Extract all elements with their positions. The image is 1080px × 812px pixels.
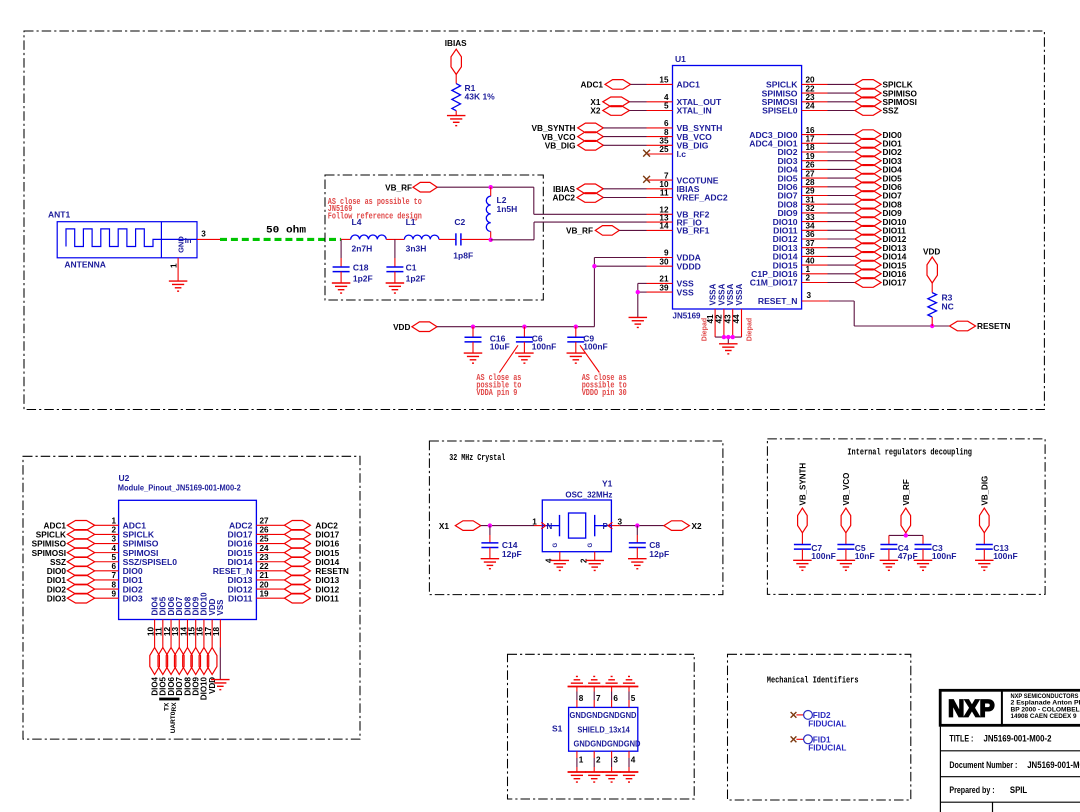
svg-text:18: 18 [212, 626, 221, 636]
inductor L2 1n5H [486, 187, 517, 240]
inductor L1 3n3H [404, 217, 439, 254]
no-connect X at U1 pin 7 VCOTUNE [643, 176, 650, 183]
U1 pin 43 VSSA [723, 283, 735, 337]
title block [940, 689, 1080, 812]
U1 pin 15 ADC1 [647, 76, 701, 90]
svg-text:DIO0: DIO0 [47, 567, 67, 576]
port X1 (crystal) [439, 521, 481, 531]
port SPIMISO (U1) [855, 88, 918, 98]
svg-text:24: 24 [806, 102, 816, 111]
svg-text:VSSA: VSSA [709, 283, 718, 305]
junction at C16 [471, 325, 475, 329]
svg-text:G: G [553, 543, 559, 548]
svg-text:SPISEL0: SPISEL0 [762, 106, 798, 116]
crystal Y1 pin 2 to ground [580, 552, 595, 563]
shield S1 SHIELD_13x14 [552, 707, 641, 751]
U1 pin 21 VSS [647, 275, 694, 289]
U1 pin 4 XTAL_OUT [647, 93, 722, 107]
svg-text:Y1: Y1 [602, 479, 613, 489]
flipped ground at shield pin 7 [585, 676, 604, 686]
U1 pin 10 IBIAS [647, 180, 700, 194]
svg-text:DIO13: DIO13 [883, 244, 907, 253]
port VB_DIG (U1) [545, 141, 647, 151]
UART0 TX RX marker [159, 698, 179, 734]
ground at shield pin 1 [568, 772, 587, 782]
svg-text:9: 9 [664, 249, 669, 258]
resistor R3 NC [928, 283, 954, 326]
svg-text:VDDA pin 9: VDDA pin 9 [476, 388, 517, 398]
port DIO17 (U1) [855, 278, 907, 288]
capacitor C1 1p2F [386, 239, 425, 283]
svg-text:43: 43 [723, 314, 732, 324]
U1 pin 14 VB_RF1 [647, 222, 710, 236]
shield S1 pin 1 (bottom) [577, 751, 584, 772]
wire VDD rail [437, 326, 594, 328]
NXP logo [948, 696, 995, 723]
svg-text:VSS: VSS [216, 599, 225, 616]
svg-text:UART0: UART0 [170, 711, 177, 733]
section frame: shield [508, 654, 695, 799]
junction at C14 [488, 523, 492, 527]
port DIO9 (U2 bottom) [191, 648, 201, 696]
svg-text:DIO3: DIO3 [123, 593, 143, 603]
wire R1 to ground [455, 111, 457, 116]
ground at shield pin 3 [602, 772, 621, 782]
wire C2 to L2 bottom junction [461, 238, 491, 240]
svg-text:VB_DIG: VB_DIG [545, 142, 576, 151]
svg-text:U1: U1 [675, 54, 686, 64]
svg-text:VB_SYNTH: VB_SYNTH [531, 124, 575, 133]
svg-text:6: 6 [664, 119, 669, 128]
port DIO1 (U1) [855, 139, 902, 149]
svg-text:6: 6 [613, 694, 618, 703]
port X1 (U1 XTAL_OUT) [590, 97, 646, 107]
capacitor C6 100nF [515, 327, 556, 363]
svg-text:X2: X2 [590, 107, 601, 116]
svg-text:1: 1 [579, 755, 584, 764]
port IBIAS (top) [445, 39, 467, 74]
U2 pin 6 DIO0 [95, 562, 143, 576]
port DIO13 (U1) [855, 243, 907, 253]
U1 pin 23 SPIMOSI [762, 93, 855, 107]
U1 pin 44 VSSA [732, 283, 744, 337]
svg-text:VSSA: VSSA [735, 283, 744, 305]
crystal Y1 pin 4 to ground [545, 552, 560, 563]
U1 pin 6 VB_SYNTH [647, 119, 723, 133]
svg-text:ANT1: ANT1 [48, 210, 70, 220]
svg-text:31: 31 [806, 195, 816, 204]
svg-text:RESET_N: RESET_N [758, 296, 798, 306]
svg-text:12pF: 12pF [502, 549, 522, 559]
port DIO14 (U2 right) [284, 557, 339, 567]
svg-text:NXP: NXP [948, 696, 995, 723]
port ADC1 (U1) [581, 80, 647, 90]
svg-text:DIO2: DIO2 [883, 148, 903, 157]
capacitor C16 10uF [464, 327, 510, 363]
svg-text:L1: L1 [406, 217, 416, 227]
port DIO15 (U2 right) [284, 548, 339, 558]
capacitor C8 12pF [628, 526, 669, 569]
junction at R3 bottom [930, 324, 934, 328]
U1 pin 36 DIO12 [773, 230, 855, 244]
svg-text:DIO5: DIO5 [883, 174, 903, 183]
svg-text:DIO10: DIO10 [883, 218, 907, 227]
svg-text:1n5H: 1n5H [497, 204, 518, 214]
svg-text:10: 10 [659, 180, 669, 189]
svg-text:IBIAS: IBIAS [553, 185, 576, 194]
wire RF net to U1 pin 13 RF_IO [491, 222, 647, 240]
port DIO6 (U1) [855, 182, 902, 192]
U2 pin 1 ADC1 [95, 517, 147, 531]
svg-text:22: 22 [260, 562, 270, 571]
svg-text:DIO3: DIO3 [883, 157, 903, 166]
svg-text:DIO3: DIO3 [47, 594, 67, 603]
U2 pin 25 DIO16 [228, 535, 285, 549]
ground at U1 VSSA [719, 344, 738, 354]
svg-text:DIO12: DIO12 [883, 235, 907, 244]
U1 pin 35 VB_DIG [647, 137, 709, 151]
svg-text:8: 8 [664, 128, 669, 137]
svg-text:C18: C18 [353, 263, 369, 273]
svg-text:ADC1: ADC1 [677, 80, 701, 90]
svg-text:DIO16: DIO16 [883, 270, 907, 279]
port DIO14 (U1) [855, 252, 907, 262]
U1 pin 28 DIO6 [777, 178, 854, 192]
U2 pin 21 DIO13 [228, 571, 285, 585]
U1 pin 20 SPICLK [766, 76, 855, 90]
svg-text:SPIMOSI: SPIMOSI [32, 549, 66, 558]
junction at L2 bottom [489, 238, 493, 242]
port DIO12 (U1) [855, 234, 907, 244]
svg-text:Prepared by :: Prepared by : [949, 785, 994, 796]
wire IBIAS port to R1 [455, 74, 457, 83]
svg-text:25: 25 [260, 535, 270, 544]
svg-text:50 ohm: 50 ohm [266, 225, 306, 237]
wire VB_RF net to U1 pin 12 [437, 187, 646, 214]
svg-text:ADC1: ADC1 [581, 81, 604, 90]
svg-text:21: 21 [260, 571, 270, 580]
port SPICLK (U1) [855, 80, 913, 90]
svg-text:100nF: 100nF [811, 551, 836, 561]
junction at L2 top [489, 185, 493, 189]
U2 pin 4 SPIMOSI [95, 544, 159, 558]
svg-text:SPIMISO: SPIMISO [32, 540, 67, 549]
port DIO11 (U1) [855, 226, 906, 236]
U1 pin 38 DIO14 [773, 248, 855, 262]
svg-text:DIO13: DIO13 [315, 576, 339, 585]
svg-text:DIO14: DIO14 [883, 253, 907, 262]
svg-text:Internal regulators decoupling: Internal regulators decoupling [847, 448, 972, 458]
svg-text:1p8F: 1p8F [453, 250, 473, 260]
inductor L4 2n7H [351, 217, 387, 254]
svg-text:1p2F: 1p2F [406, 274, 426, 284]
flipped ground at shield pin 6 [602, 676, 621, 686]
svg-text:Diepad: Diepad [701, 318, 708, 341]
wire X1 to crystal [481, 525, 534, 527]
port X2 (crystal) [664, 521, 702, 531]
port DIO3 (U1) [855, 156, 902, 166]
U2 pin 24 DIO15 [228, 544, 285, 558]
svg-text:JN5169: JN5169 [673, 311, 701, 321]
U1 pin 41 VSSA [706, 283, 718, 337]
svg-text:4: 4 [664, 93, 669, 102]
port DIO4 (U2 bottom) [150, 648, 160, 696]
svg-text:P: P [603, 522, 609, 531]
U2 pin 20 DIO12 [228, 580, 285, 594]
U1 pin 37 DIO13 [773, 239, 855, 253]
svg-text:DIO9: DIO9 [883, 209, 903, 218]
port DIO0 (U2 left) [47, 566, 95, 576]
svg-text:7: 7 [596, 694, 601, 703]
U2 pin 19 DIO11 [228, 589, 284, 603]
svg-text:ANTENNA: ANTENNA [64, 260, 106, 270]
svg-text:DIO12: DIO12 [315, 585, 339, 594]
port ADC1 (U2 left) [44, 521, 95, 531]
fiducial FID1 [791, 735, 847, 753]
svg-text:SHIELD_13x14: SHIELD_13x14 [577, 725, 630, 734]
ground at shield pin 4 [620, 772, 639, 782]
svg-text:28: 28 [806, 178, 816, 187]
svg-text:6: 6 [111, 562, 116, 571]
flipped ground at shield pin 8 [568, 676, 587, 686]
crystal Y1 pin 1 [532, 517, 542, 526]
svg-text:OSC_32MHz: OSC_32MHz [565, 490, 612, 500]
svg-text:SPIMOSI: SPIMOSI [883, 98, 917, 107]
U2 pin 27 ADC2 [229, 517, 284, 531]
shield S1 pin 4 (bottom) [629, 751, 636, 772]
capacitor C14 12pF [481, 526, 522, 569]
svg-text:VB_RF1: VB_RF1 [677, 226, 710, 236]
port DIO15 (U1) [855, 260, 907, 270]
svg-text:VB_RF: VB_RF [566, 227, 593, 236]
port DIO1 (U2 left) [47, 575, 95, 585]
svg-text:44: 44 [732, 314, 741, 324]
port RESETN (U1) [950, 321, 1011, 331]
svg-text:39: 39 [659, 283, 669, 292]
svg-text:RESETN: RESETN [977, 322, 1011, 331]
wire RESET_N net [829, 301, 950, 326]
flipped ground at shield pin 5 [620, 676, 639, 686]
port X2 (U1 XTAL_IN) [590, 106, 646, 116]
svg-text:15: 15 [659, 76, 669, 85]
svg-text:1: 1 [170, 263, 179, 268]
U1 pin 34 DIO11 [773, 222, 855, 236]
U2 pin 9 DIO3 [95, 589, 143, 603]
port DIO7 (U2 bottom) [174, 648, 184, 696]
IC U1 JN5169 [673, 54, 802, 321]
U1 pin 42 VSSA [715, 283, 727, 337]
svg-text:DIO14: DIO14 [315, 558, 339, 567]
U1 pin 31 DIO8 [777, 195, 854, 209]
svg-text:35: 35 [659, 137, 669, 146]
svg-text:VDD: VDD [393, 323, 410, 332]
port DIO5 (U2 bottom) [158, 648, 168, 696]
U1 pin 40 DIO15 [773, 256, 855, 270]
svg-text:SPIMISO: SPIMISO [883, 89, 918, 98]
svg-text:26: 26 [260, 526, 270, 535]
section frame: antenna matching network [325, 175, 543, 300]
svg-text:29: 29 [806, 187, 816, 196]
svg-text:DIO1: DIO1 [883, 140, 903, 149]
svg-text:14908 CAEN CEDEX 9: 14908 CAEN CEDEX 9 [1011, 713, 1077, 720]
note: as close as possible to VDDO pin 30 [580, 345, 627, 398]
U1 pin 26 DIO4 [777, 161, 854, 175]
company address [1011, 693, 1080, 720]
svg-text:DIO11: DIO11 [315, 594, 339, 603]
svg-text:5: 5 [631, 694, 636, 703]
ground at shield pin 2 [585, 772, 604, 782]
svg-text:16: 16 [806, 126, 816, 135]
svg-text:Mechanical Identifiers: Mechanical Identifiers [767, 676, 859, 686]
crystal Y1 pin 3 [611, 517, 622, 526]
U1 pin 5 XTAL_IN [647, 102, 712, 116]
svg-text:X1: X1 [590, 98, 601, 107]
svg-text:3: 3 [201, 230, 206, 239]
svg-text:3: 3 [111, 535, 116, 544]
svg-text:XTAL_IN: XTAL_IN [677, 106, 712, 116]
U2 pin 3 SPIMISO [95, 535, 159, 549]
ground at R1 [447, 116, 466, 126]
svg-text:VB_RF: VB_RF [385, 184, 412, 193]
U1 pin 25 I.c [647, 145, 687, 159]
wire VSSA bus to ground [715, 337, 741, 344]
port VB_VCO (U1) [542, 132, 647, 142]
svg-text:DIO17: DIO17 [315, 531, 339, 540]
antenna ANT1 [48, 210, 197, 270]
svg-text:VSSA: VSSA [717, 283, 726, 305]
svg-text:3: 3 [613, 755, 618, 764]
svg-text:VSS: VSS [677, 287, 694, 297]
svg-text:9: 9 [111, 589, 116, 598]
svg-text:3: 3 [807, 291, 812, 300]
U1 pin 1 C1P_DIO16 [751, 265, 855, 279]
port DIO13 (U2 right) [284, 575, 339, 585]
junction at C9 [574, 325, 578, 329]
port VB_SYNTH (U1) [531, 123, 646, 133]
svg-text:ADC1: ADC1 [44, 522, 67, 531]
U1 pin 33 DIO10 [773, 213, 855, 227]
svg-text:GNDGNDGNDGND: GNDGNDGNDGND [570, 711, 637, 720]
svg-text:20: 20 [260, 580, 270, 589]
svg-text:30: 30 [659, 257, 669, 266]
port DIO17 (U2 right) [284, 530, 339, 540]
crystal Y1 OSC_32MHz [541, 479, 612, 552]
svg-text:12pF: 12pF [649, 549, 669, 559]
port VB_SYNTH (decoupling) [798, 463, 808, 533]
U2 pin 18 VSS [212, 599, 225, 648]
svg-text:100nF: 100nF [932, 551, 957, 561]
section frame: internal regulators decoupling [767, 439, 1045, 595]
port DIO10 (U2 bottom) [199, 648, 209, 701]
svg-text:1: 1 [111, 517, 116, 526]
svg-text:2: 2 [111, 526, 116, 535]
svg-text:C1: C1 [406, 263, 417, 273]
svg-text:4: 4 [111, 544, 116, 553]
port DIO6 (U2 bottom) [166, 648, 176, 696]
svg-text:VB_DIG: VB_DIG [981, 476, 990, 506]
svg-text:VDDD: VDDD [677, 261, 701, 271]
U1 pin 7 VCOTUNE [647, 171, 719, 185]
svg-text:21: 21 [659, 275, 669, 284]
svg-text:JN5169-001-M00-2: JN5169-001-M00-2 [984, 734, 1052, 745]
prepared by row [949, 785, 1027, 796]
wire VDDA VDDD to VDD rail [594, 258, 646, 327]
antenna pin 1 wire to ground [170, 258, 179, 281]
svg-text:JN5169-001-M00-2: JN5169-001-M00-2 [1027, 760, 1080, 771]
U2 pin 22 RESET_N [213, 562, 285, 576]
svg-text:14: 14 [659, 222, 669, 231]
U2 pin 11 DIO5 [155, 596, 168, 647]
port DIO3 (U2 left) [47, 593, 95, 603]
svg-text:4: 4 [631, 755, 636, 764]
shield S1 pin 3 (bottom) [612, 751, 619, 772]
port IBIAS (U1) [553, 184, 647, 194]
svg-text:IBIAS: IBIAS [445, 39, 467, 48]
svg-text:N: N [547, 522, 553, 531]
U1 pin 12 VB_RF2 [647, 206, 710, 220]
svg-text:19: 19 [806, 152, 816, 161]
port VB_RF (decoupling) [901, 479, 911, 533]
U1 pin 22 SPIMISO [762, 84, 855, 98]
svg-text:GNDGNDGNDGND: GNDGNDGNDGND [574, 740, 641, 749]
port ADC2 (U2 right) [284, 521, 338, 531]
svg-text:33: 33 [806, 213, 816, 222]
U1 pin 32 DIO9 [777, 204, 854, 218]
port RESETN (U2 right) [284, 566, 349, 576]
svg-text:42: 42 [715, 314, 724, 324]
svg-text:SPICLK: SPICLK [36, 531, 66, 540]
U1 pin 18 DIO2 [777, 143, 854, 157]
svg-text:DIO15: DIO15 [883, 261, 907, 270]
capacitor C7 100nF [793, 533, 836, 571]
ground at U1 VSS [629, 317, 648, 327]
U2 pin 2 SPICLK [95, 526, 155, 540]
svg-text:100nF: 100nF [993, 551, 1018, 561]
svg-text:18: 18 [806, 143, 816, 152]
U2 pin 12 DIO6 [163, 596, 176, 647]
svg-text:DIO6: DIO6 [883, 183, 903, 192]
svg-text:FIDUCIAL: FIDUCIAL [808, 744, 846, 753]
capacitor C3 100nF [914, 543, 957, 570]
capacitor C2 1p8F [453, 217, 473, 260]
U2 pin 5 SSZ/SPISEL0 [95, 553, 178, 567]
svg-text:NC: NC [942, 301, 954, 311]
junction at C6 [522, 325, 526, 329]
section frame: mechanical identifiers [728, 654, 911, 800]
capacitor C13 100nF [975, 533, 1018, 571]
svg-text:3n3H: 3n3H [406, 244, 427, 254]
svg-text:I.c: I.c [677, 149, 687, 159]
svg-text:C1M_DIO17: C1M_DIO17 [750, 278, 798, 288]
svg-text:10uF: 10uF [490, 341, 510, 351]
ground at antenna [169, 281, 188, 291]
ground at C18 [332, 283, 351, 293]
svg-text:RX: RX [171, 702, 178, 712]
svg-text:G: G [588, 543, 594, 548]
svg-text:2n7H: 2n7H [352, 244, 373, 254]
section frame: main RF circuit [24, 31, 1044, 410]
U1 pin 17 ADC4_DIO1 [749, 135, 855, 149]
svg-text:38: 38 [806, 248, 816, 257]
U2 pin 17 VDD [204, 598, 217, 647]
port SPIMOSI (U1) [855, 97, 917, 107]
ground at crystal pin 2 [585, 560, 604, 570]
port VB_VCO (decoupling) [841, 473, 851, 533]
note: as close as possible to VDDA pin 9 [476, 345, 521, 398]
svg-text:11: 11 [660, 189, 669, 198]
svg-text:Module_Pinout_JN5169-001-M00-2: Module_Pinout_JN5169-001-M00-2 [118, 482, 241, 492]
svg-text:100nF: 100nF [583, 341, 608, 351]
